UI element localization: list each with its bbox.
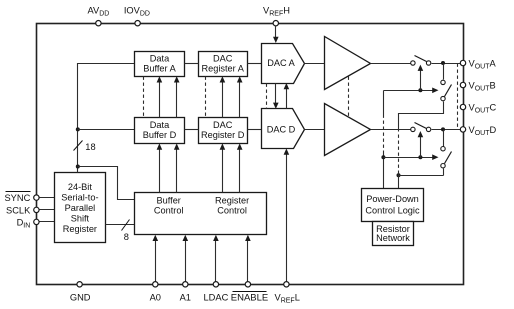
wire junction A to switch SW-PDA (443, 64, 445, 80)
pin ENABLE (231, 282, 269, 304)
wire control to register D 1 (220, 143, 226, 192)
svg-text:Data: Data (150, 120, 170, 130)
dashed line output sense (457, 64, 459, 130)
pin DIN (17, 217, 40, 229)
bus slash 8 (122, 220, 130, 243)
wire switch SW-PDD stem (443, 169, 445, 176)
svg-text:Buffer D: Buffer D (143, 130, 177, 140)
wire buffer D to register D (185, 129, 199, 131)
data buffer D U4 (135, 118, 185, 144)
pin SCLK (6, 205, 39, 215)
node A output junction (441, 61, 445, 65)
node control A junction (418, 88, 422, 92)
pin VREFL (275, 282, 300, 305)
wire LDAC to control (213, 235, 219, 283)
DAC D U8 (262, 109, 305, 149)
wire buffer A to register A (185, 63, 199, 65)
dashed control riser (383, 115, 385, 153)
wire shift register riser (78, 64, 135, 173)
wire 18-bit bus to control block (78, 167, 135, 200)
svg-text:LDAC: LDAC (203, 292, 228, 302)
wire power-down control D (384, 154, 439, 160)
wire DAC A to amplifier A (305, 63, 325, 65)
svg-text:Data: Data (150, 54, 170, 64)
pin LDAC (203, 282, 228, 303)
wire riser to data buffer D (78, 129, 135, 131)
svg-text:Serial-to-: Serial-to- (61, 193, 98, 203)
svg-text:Parallel: Parallel (65, 203, 96, 213)
svg-text:Buffer A: Buffer A (143, 64, 176, 74)
svg-text:Register: Register (63, 224, 97, 234)
pin IOVDD (124, 5, 150, 26)
wire register D to DAC D (248, 129, 262, 131)
svg-text:A1: A1 (180, 292, 191, 302)
svg-text:A0: A0 (150, 292, 161, 302)
DAC register A U3 (199, 52, 248, 77)
svg-text:Control: Control (217, 205, 247, 215)
pin VOUTD (460, 125, 496, 137)
svg-text:Control Logic: Control Logic (365, 205, 420, 215)
dashed line channel C network (398, 135, 400, 172)
wire register D to register A 2 (237, 76, 243, 117)
wire SCLK stub (37, 209, 55, 211)
svg-text:Register A: Register A (202, 64, 245, 74)
switch SW-PDA (441, 80, 452, 101)
wire buffer D to buffer A 1 (157, 76, 163, 117)
wire switch SW-PDD to resistor network feed (399, 175, 444, 177)
wire control to buffer D 2 (174, 143, 180, 192)
DAC A U7 (262, 44, 305, 84)
svg-text:SCLK: SCLK (6, 205, 31, 215)
wire switch SW-D to VOUTD pin (432, 129, 464, 131)
wire amplifier A to switch SW-A (371, 63, 411, 65)
pin VOUTA (460, 58, 496, 70)
node resistor network feed (397, 173, 401, 177)
wire control riser solid lower (383, 153, 385, 189)
svg-text:Register D: Register D (201, 130, 245, 140)
svg-text:Control: Control (154, 205, 184, 215)
wire control arrow to switch SW-A (418, 65, 424, 91)
node D output junction (441, 127, 445, 131)
wire junction D to switch SW-PDD (443, 130, 445, 147)
wire A0 to control (153, 235, 159, 283)
svg-text:DAC A: DAC A (267, 58, 295, 68)
svg-text:GND: GND (70, 292, 91, 302)
chip boundary (37, 24, 464, 285)
wire VREFL DAC D to DAC A (284, 83, 290, 109)
wire control arrow to switch SW-D (418, 131, 424, 158)
pin VOUTB (460, 80, 495, 92)
svg-text:Register: Register (215, 196, 249, 206)
bus slash 18 (74, 141, 96, 153)
dashed channel line DACs B-C (266, 84, 268, 109)
svg-text:SYNC: SYNC (4, 193, 30, 203)
pin VREFH (263, 5, 290, 26)
24-bit serial-to-parallel shift register U1 (55, 173, 106, 243)
wire 8-bit bus shift register to control block (106, 224, 135, 226)
wire switch SW-A to VOUTA pin (432, 63, 464, 65)
pin AVDD (87, 5, 109, 26)
switch SW-PDD (441, 147, 452, 168)
wire VREFH to DAC A (273, 26, 279, 44)
wire A1 to control (183, 235, 189, 283)
svg-text:Buffer: Buffer (157, 196, 181, 206)
node control D junction (418, 155, 422, 159)
svg-text:Power-Down: Power-Down (366, 194, 419, 204)
resistor network block U12 (373, 222, 414, 246)
wire control to buffer D 1 (157, 143, 163, 192)
wire power-down control A (384, 88, 439, 94)
wire amplifier D to switch SW-D (371, 129, 411, 131)
svg-text:DAC: DAC (213, 120, 233, 130)
wire ENABLE to control (245, 235, 251, 283)
dashed channel line registers B-C (205, 77, 207, 118)
wire VREFH DAC A to DAC D (273, 84, 279, 109)
node control D junction left (381, 155, 385, 159)
switch SW-A (411, 56, 431, 66)
node riser to data buffer D (76, 127, 80, 131)
pin VOUTC (460, 102, 496, 114)
node riser to control bus (76, 165, 80, 169)
pin SYNC (4, 192, 39, 204)
wire control to register D 2 (237, 143, 243, 192)
wire VREFL to DAC D (284, 149, 290, 283)
pin A0 (150, 282, 161, 303)
wire register D to register A 1 (220, 76, 226, 117)
svg-text:ENABLE: ENABLE (231, 292, 269, 303)
wire register A to DAC A (248, 63, 262, 65)
dashed channel line buffers B-C (143, 77, 145, 118)
wire control riser solid upper (383, 91, 385, 115)
wire resistor network feed to power-down block (398, 172, 400, 189)
pin GND (70, 282, 91, 303)
dashed channel line amplifiers B-C (348, 77, 350, 117)
power-down control logic block U11 (362, 189, 424, 222)
DAC register D U5 (199, 118, 248, 144)
output amplifier A U9 (325, 37, 371, 90)
pin A1 (180, 282, 191, 303)
switch SW-D (411, 123, 431, 132)
svg-text:DAC D: DAC D (267, 125, 296, 135)
wire buffer D to buffer A 2 (174, 76, 180, 117)
svg-text:24-Bit: 24-Bit (68, 182, 92, 192)
output amplifier D U10 (325, 104, 371, 156)
wire switch SW-PDA to channel B network (399, 102, 444, 132)
data buffer A U2 (135, 52, 185, 77)
wire DIN stub (37, 221, 55, 223)
svg-text:Shift: Shift (71, 214, 90, 224)
wire SYNC stub (37, 197, 55, 199)
svg-text:Network: Network (376, 233, 410, 243)
svg-text:18: 18 (85, 142, 95, 152)
buffer and register control block U6 (135, 193, 267, 235)
wire DAC D to amplifier D (305, 129, 325, 131)
svg-text:DAC: DAC (213, 54, 233, 64)
svg-text:8: 8 (124, 232, 129, 242)
